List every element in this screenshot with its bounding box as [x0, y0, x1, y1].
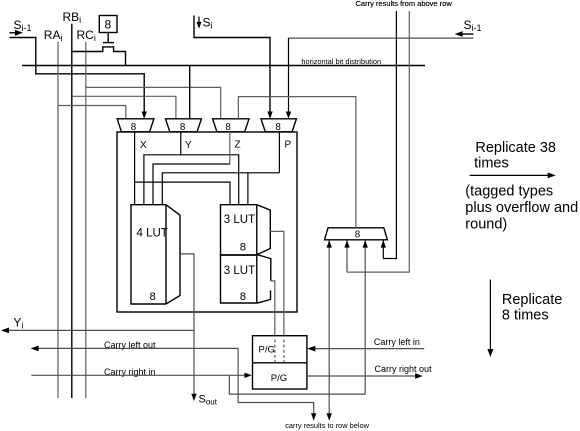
svg-text:Replicate: Replicate	[502, 292, 562, 308]
svg-text:8: 8	[150, 291, 156, 303]
svg-text:Z: Z	[235, 140, 241, 151]
svg-text:(tagged types: (tagged types	[465, 183, 553, 199]
svg-text:P/G: P/G	[259, 345, 275, 356]
svg-text:8: 8	[240, 291, 246, 303]
svg-text:horizontal bit distribution: horizontal bit distribution	[301, 57, 381, 66]
svg-text:RBi: RBi	[63, 10, 82, 25]
svg-text:Carry right out: Carry right out	[375, 364, 433, 374]
svg-text:3 LUT: 3 LUT	[224, 265, 255, 277]
svg-text:3 LUT: 3 LUT	[224, 214, 255, 226]
svg-text:RAi: RAi	[44, 28, 63, 43]
svg-text:Carry results from above row: Carry results from above row	[356, 0, 453, 8]
svg-text:X: X	[140, 140, 147, 151]
svg-text:8: 8	[355, 230, 361, 241]
svg-text:Y: Y	[185, 140, 192, 151]
svg-text:8 times: 8 times	[502, 308, 549, 324]
svg-text:times: times	[474, 156, 509, 172]
svg-text:4 LUT: 4 LUT	[137, 228, 168, 240]
svg-text:plus overflow and: plus overflow and	[465, 200, 578, 216]
svg-text:round): round)	[465, 216, 507, 232]
svg-text:8: 8	[240, 241, 246, 253]
svg-text:P: P	[285, 140, 292, 151]
svg-text:carry results to row below: carry results to row below	[285, 421, 369, 430]
svg-text:Carry left in: Carry left in	[374, 337, 420, 347]
svg-text:RCi: RCi	[77, 28, 96, 43]
svg-text:8: 8	[105, 18, 112, 32]
svg-text:P/G: P/G	[271, 373, 287, 384]
svg-text:Replicate 38: Replicate 38	[475, 140, 556, 156]
